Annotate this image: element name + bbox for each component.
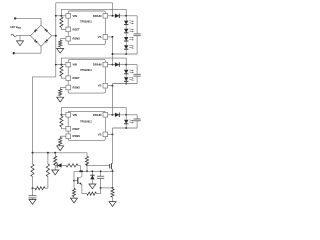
wire: LED string 1 — [125, 41, 127, 45]
wire: LED string 1 bottom lead — [125, 49, 127, 54]
svg-text:VIN: VIN — [73, 113, 78, 117]
wire: LED string 2 bottom lead — [125, 82, 127, 84]
resistor R bottom horizontal — [35, 187, 45, 190]
ground arrow RSNS1 — [59, 47, 61, 49]
ground arrow base divider — [73, 197, 75, 199]
svg-text:VIN: VIN — [73, 63, 78, 67]
junction: gate node — [86, 164, 88, 166]
wire: AC source to bridge left vertex — [17, 35, 31, 37]
junction: divider column 2 on common rail — [47, 152, 49, 154]
wire: divider column 1 — [32, 153, 34, 164]
junction: divider column 1 on common rail — [32, 152, 34, 154]
wire: RSNS pin U3 to sense resistor — [60, 135, 66, 137]
wire: to cap C bottom-left — [32, 188, 34, 196]
resistor RSNS3 — [59, 138, 62, 146]
node: LED string 2 top — [125, 64, 127, 66]
wire riser to bridge bottom vertex — [40, 46, 42, 53]
svg-text:TPS92611: TPS92611 — [80, 69, 92, 72]
LED D2a — [124, 70, 128, 74]
LED D1a — [124, 21, 128, 25]
wire: rail stub to bottom network — [33, 77, 56, 153]
svg-text:RSET: RSET — [73, 76, 81, 80]
wire: DRAIN U2 to LED string — [108, 64, 127, 66]
pin DRAIN U3 — [103, 113, 108, 118]
wire: bottom common rail — [33, 152, 88, 154]
LED D1b — [124, 29, 128, 33]
capacitor C2 across LED string — [134, 73, 141, 75]
resistor RSNS2 — [59, 89, 62, 96]
wire: string 1 bottom to cap — [113, 53, 138, 55]
wire: VIN3 link over to LED string top — [61, 108, 126, 115]
wire: clamp diode to resistor — [62, 164, 66, 166]
pin VS U1 — [103, 35, 108, 40]
junction: VS2 on feed column — [112, 85, 114, 87]
wire: N1 corner down to gate resistor — [86, 153, 88, 157]
pin RSNS U3 — [66, 134, 71, 139]
wire: gate node to MOSFET gate — [87, 164, 110, 166]
diode D clamp vertical (zener) — [91, 171, 93, 175]
wire: VS U2 to feed column — [108, 85, 113, 87]
capacitor C3 across LED string — [134, 118, 141, 120]
pin VIN U2 — [66, 62, 71, 67]
capacitor C gate filter — [100, 171, 102, 176]
wire: link node to VIN U3 — [61, 114, 66, 116]
svg-text:DRAIN: DRAIN — [93, 14, 102, 18]
resistor RSET1 — [60, 17, 63, 27]
svg-text:TPS92611: TPS92611 — [80, 121, 92, 124]
resistor R source sense — [112, 171, 114, 189]
wire: up to cap node — [100, 188, 102, 194]
ground arrow zener — [91, 182, 93, 184]
ground arrow below AC source — [19, 36, 21, 41]
wire: string 2 bottom to cap — [113, 83, 138, 85]
wire: cap node to source resistor — [101, 187, 113, 189]
wire: LED string 1 — [125, 16, 127, 21]
capacitor C1 across LED string — [134, 33, 141, 35]
resistor RSET3 — [60, 116, 63, 127]
wire: cap C1 top lead — [136, 16, 138, 34]
wire: resistor to RSET pin U1 — [61, 28, 66, 30]
wire: emitter resistor run — [82, 193, 87, 195]
svg-text:RSET: RSET — [73, 27, 81, 31]
node: AC input terminal L — [14, 17, 16, 19]
op-amp U3 TPS92611 block — [68, 111, 105, 140]
ground arrow source sense — [112, 200, 114, 202]
LED D3a — [124, 120, 128, 124]
wire: LED string 1 — [125, 25, 127, 29]
wire: MOSFET source down to N2 — [112, 169, 114, 171]
wire: string 1 top to cap — [126, 15, 137, 17]
node: LED string 2 bottom — [125, 83, 127, 85]
capacitor C bottom-left — [29, 195, 37, 197]
pin RSNS U1 — [66, 36, 71, 41]
resistor R base-lower — [73, 181, 75, 189]
ground arrow bottom-left — [32, 198, 34, 200]
wire: string 2 top to cap — [126, 64, 137, 66]
junction: feed/DRAIN1 node — [112, 15, 114, 17]
bridge diode top-right — [44, 29, 48, 33]
bridge rectifier D1 diamond — [30, 25, 51, 46]
op-amp U1 TPS92611 block — [68, 11, 105, 44]
wire: divider column 2 — [47, 153, 49, 164]
junction: divider tap on N2 — [79, 170, 81, 172]
wire: resistor to RSET pin U3 — [61, 128, 66, 130]
node: LED string 1 bottom — [125, 53, 127, 55]
wire: VS U3 to feed column — [108, 133, 113, 135]
diode D3 series — [115, 113, 119, 117]
junction: VS1 on feed column — [112, 36, 114, 38]
resistor R gate divider top — [66, 164, 78, 167]
ground arrow bleeder — [54, 168, 56, 170]
svg-text:VS: VS — [98, 84, 102, 88]
junction: feed/DRAIN3 node — [112, 114, 114, 116]
op-amp U2 TPS92611 block — [68, 60, 105, 94]
wire: LED string 3 bottom lead — [125, 124, 127, 128]
wire: input N to bridge bottom — [14, 52, 41, 54]
junction: VS3 on feed column — [112, 133, 114, 135]
resistor RSET2 — [60, 66, 63, 76]
node: LED string 3 bottom — [125, 127, 127, 129]
ground arrow RSNS3 — [59, 144, 61, 147]
wire: DRAIN U3 to LED string — [108, 114, 127, 116]
bridge diode top-left — [34, 29, 38, 33]
wire: rail to VIN U1 — [56, 15, 66, 17]
wire: cap C3 bottom lead — [136, 121, 138, 128]
node: LED string 3 top — [125, 114, 127, 116]
wire: string 3 bottom to cap — [113, 127, 138, 129]
wire: cap C3 top lead — [136, 115, 138, 119]
LED D2b — [124, 77, 128, 81]
pin RSET U2 — [66, 76, 71, 81]
diode D1 series — [115, 14, 119, 18]
junction rail/VIN2 — [55, 64, 57, 66]
junction: string1 bottom on column — [112, 53, 114, 55]
node: VIN2 link junction — [60, 64, 62, 66]
wire: VS1 column down to stage2 feed — [112, 37, 114, 65]
wire: DRAIN U1 to LED string — [108, 15, 127, 17]
svg-text:VS: VS — [98, 35, 102, 39]
wire riser to bridge top vertex — [40, 18, 42, 25]
wire: drop to N2 rail — [79, 165, 81, 171]
pin RSNS U2 — [66, 85, 71, 90]
LED D1d — [124, 45, 128, 49]
pin RSET U3 — [66, 127, 71, 132]
transistor Q2 MOSFET — [111, 163, 112, 165]
svg-text:RSNS: RSNS — [73, 86, 81, 90]
wire: top rail from main rail to stage1 drain node — [56, 2, 113, 4]
svg-text:RSNS: RSNS — [73, 134, 81, 138]
node: LED string 1 top — [125, 15, 127, 17]
wire: Q1 emitter down — [81, 185, 83, 194]
pin DRAIN U2 — [103, 62, 108, 67]
junction: gate resistor on N2 — [86, 170, 88, 172]
junction: divider bottom node — [32, 187, 34, 189]
wire: main left rail — [55, 3, 57, 77]
svg-text:RSNS: RSNS — [73, 37, 81, 41]
wire: input L to bridge top — [15, 17, 41, 19]
wire: LED string 3 — [125, 115, 127, 120]
svg-text:TPS92611: TPS92611 — [80, 20, 92, 23]
resistor R bleeder — [54, 156, 57, 165]
bridge diode bottom-left — [34, 40, 38, 44]
junction: source on N2 — [112, 170, 114, 172]
pin RSET U1 — [66, 27, 71, 32]
wire: VS3 column down to MOSFET drain — [112, 128, 114, 164]
wire: N2 rail — [74, 170, 113, 172]
wire: LED string 2 — [125, 65, 127, 70]
junction rail/VIN1 — [55, 15, 57, 17]
bridge diode bottom-right — [45, 39, 49, 43]
pin DRAIN U1 — [103, 14, 108, 19]
junction: bleeder on common rail — [54, 152, 56, 154]
svg-text:DRAIN: DRAIN — [93, 63, 102, 67]
node: VIN1 link junction — [60, 15, 62, 17]
svg-text:VS: VS — [98, 132, 102, 136]
wire: cap C1 bottom lead — [136, 36, 138, 54]
resistor R divider 1 — [31, 164, 34, 177]
wire: resistor to RSET pin U2 — [61, 77, 66, 79]
wire: RSNS pin U1 to sense resistor — [60, 38, 66, 40]
AC source V1 sine symbol — [11, 34, 17, 37]
node: VIN3 link junction — [60, 114, 62, 116]
transistor Q1 BJT diode-connected — [73, 171, 75, 180]
wire: VIN1 link over to LED string top — [61, 9, 126, 16]
wire: rail to VIN U2 — [56, 64, 66, 66]
wire: string 3 top to cap — [126, 114, 137, 116]
svg-text:RSET: RSET — [73, 127, 81, 131]
node: AC input terminal N — [13, 52, 15, 54]
ground arrow RSNS2 — [59, 96, 61, 98]
pin VS U3 — [103, 132, 108, 137]
wire: cap C2 bottom lead — [136, 76, 138, 83]
wire: LED string 2 — [125, 74, 127, 77]
wire: VIN2 link over to LED string top — [61, 58, 126, 65]
junction: source resistor top node — [112, 187, 114, 189]
wire: LED string 1 — [125, 33, 127, 37]
wire: bridge + output to rail — [52, 35, 56, 37]
diode D clamp pointing left at bleeder node — [56, 163, 58, 167]
wire: VS U1 to feed column — [108, 36, 113, 38]
LED D1c — [124, 37, 128, 41]
pin VIN U1 — [66, 14, 71, 19]
wire: cap C2 top lead — [136, 65, 138, 75]
junction: cap bottom node — [100, 187, 102, 189]
junction: bridge output on rail — [55, 35, 57, 37]
pin VS U2 — [103, 83, 108, 88]
resistor R emitter — [87, 192, 97, 195]
svg-text:VIN: VIN — [73, 14, 78, 18]
pin VIN U3 — [66, 113, 71, 118]
resistor RSNS1 — [59, 40, 62, 47]
resistor R divider 2 — [46, 164, 49, 177]
wire: bleeder top — [54, 153, 56, 156]
junction: Q1 collector on N2 — [81, 170, 83, 172]
diode D2 series — [115, 62, 119, 66]
svg-text:DRAIN: DRAIN — [93, 113, 102, 117]
Q1 emitter with arrow — [78, 182, 82, 184]
junction: feed/DRAIN2 node — [112, 64, 114, 66]
wire: resistor to drop — [78, 164, 80, 166]
wire: VS2 column down to stage3 feed — [112, 84, 114, 115]
wire: RSNS pin U2 to sense resistor — [60, 87, 66, 89]
resistor R gate pull — [85, 156, 88, 165]
